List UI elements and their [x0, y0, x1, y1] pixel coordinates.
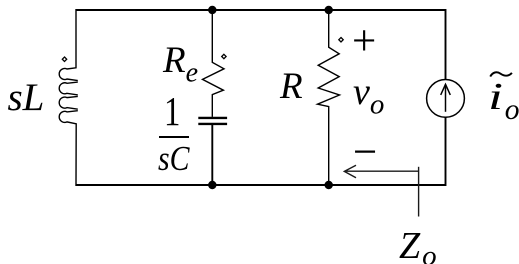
wire capacitor to bottom [211, 124, 213, 186]
label plus [352, 20, 376, 63]
anchor diamond near Re [222, 54, 226, 58]
node dot bottom-left (junction at Re bottom) [208, 181, 216, 189]
node dot top-right (junction at R top) [325, 6, 333, 14]
label Zo [399, 227, 437, 264]
tilde of io label [490, 72, 512, 76]
Zo arrowhead [344, 165, 356, 178]
label io subscript o [505, 96, 519, 126]
capacitor 1/sC top plate [198, 117, 227, 119]
resistor R [318, 9, 340, 186]
capacitor 1/sC bottom plate [198, 123, 227, 125]
current source arrow shaft [445, 84, 447, 112]
label sC denominator [158, 141, 189, 176]
label R [280, 68, 303, 105]
inductor sL [59, 9, 78, 186]
wire right upper [445, 9, 447, 80]
label Re [163, 42, 198, 88]
Zo arrow horizontal shaft [345, 170, 419, 172]
label 1/sC numerator 1 [164, 91, 180, 132]
node dot bottom-right (junction at R bottom) [325, 181, 333, 189]
label sL [8, 78, 45, 117]
node dot top-left (junction at Re top) [208, 6, 216, 14]
wire bottom [76, 184, 446, 186]
anchor diamond near inductor [62, 57, 66, 61]
anchor diamond near R [339, 38, 343, 42]
current source U1 circle [427, 80, 465, 118]
Zo arrow vertical elbow [418, 167, 420, 217]
fraction bar [159, 136, 189, 138]
label io (i with tilde above in SVG) [488, 78, 503, 116]
label minus [353, 131, 377, 174]
wire right lower [445, 117, 447, 186]
label vo [353, 73, 384, 120]
wire top [76, 9, 446, 11]
resistor Re [203, 9, 225, 117]
current source arrowhead [441, 84, 451, 95]
